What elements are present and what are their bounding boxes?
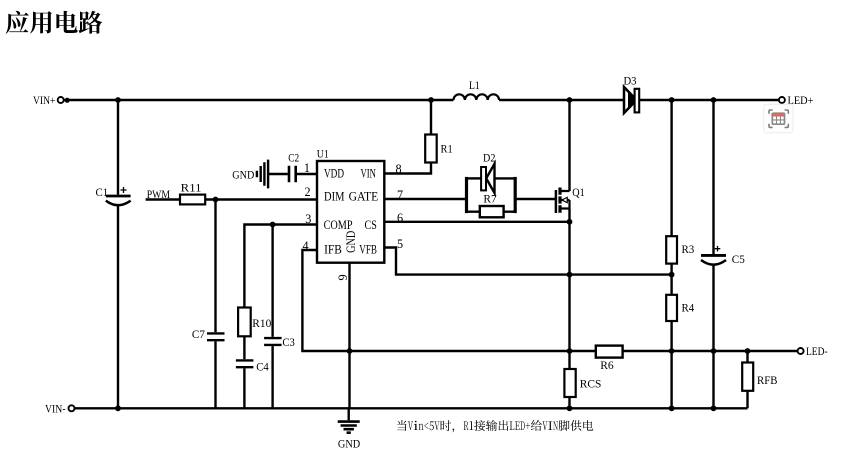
- node junction CS source: [567, 219, 573, 225]
- wire COMP pin 3 net: [244, 225, 317, 308]
- svg-text:RCS: RCS: [580, 376, 602, 390]
- resistor R3: [666, 236, 694, 263]
- overlay extension icon: [764, 104, 793, 133]
- svg-text:1: 1: [304, 161, 310, 175]
- node junction RCS rail: [567, 405, 573, 411]
- node junction Q1 drain top: [567, 97, 573, 103]
- node junction C1 top: [115, 97, 121, 103]
- capacitor C7: [192, 327, 225, 341]
- wire CS pin 6: [384, 221, 569, 223]
- svg-text:VIN: VIN: [361, 167, 377, 181]
- node junction C3 top: [270, 222, 276, 228]
- wire GND pin 9: [348, 263, 350, 409]
- svg-text:VIN+: VIN+: [33, 93, 56, 107]
- transistor Q1: [556, 185, 585, 213]
- wire R3 R4 branch: [670, 100, 672, 408]
- wire VFB pin 5: [384, 248, 671, 275]
- wire C3 branch upper: [271, 225, 273, 337]
- wire bottom rail: [75, 407, 748, 409]
- capacitor C2: [288, 151, 299, 183]
- svg-text:R10: R10: [252, 316, 271, 330]
- svg-text:5: 5: [397, 237, 403, 251]
- wire D2 right stub: [495, 177, 516, 179]
- terminal LED+: [779, 93, 814, 107]
- svg-text:9: 9: [336, 274, 350, 280]
- capacitor C5: [701, 246, 745, 266]
- title 应用电路: [6, 11, 103, 34]
- wire top rail VIN+ to L1: [64, 99, 454, 101]
- svg-text:COMP: COMP: [324, 218, 353, 232]
- wire C5 branch upper: [712, 100, 714, 254]
- wire C4 to rail: [243, 368, 245, 408]
- resistor R1: [425, 135, 453, 163]
- wire top rail D3 to LED+: [639, 99, 779, 101]
- node junction R4 rail: [669, 405, 675, 411]
- resistor R4: [666, 295, 694, 321]
- svg-text:R3: R3: [682, 242, 695, 256]
- node junction C5 bottom: [711, 348, 717, 354]
- wire top rail L1 to D3: [499, 99, 624, 101]
- svg-text:L1: L1: [469, 78, 480, 92]
- svg-text:R7: R7: [483, 192, 496, 206]
- resistor R10: [238, 308, 271, 337]
- op IC U1 body: [317, 146, 385, 262]
- wire PWM input: [146, 198, 180, 200]
- ground symbol left (C2): [232, 160, 268, 189]
- svg-text:VIN-: VIN-: [45, 401, 66, 415]
- resistor R6: [596, 346, 623, 372]
- note text bottom: [397, 420, 593, 432]
- diode D3: [624, 74, 640, 114]
- ground symbol bottom: [338, 408, 361, 450]
- node snubber left bar: [465, 177, 468, 213]
- resistor R11: [180, 180, 205, 204]
- wire C3 branch lower: [271, 346, 273, 408]
- wire C1 branch lower: [117, 205, 119, 408]
- diode D2: [481, 151, 495, 193]
- node junction R1 top: [428, 97, 434, 103]
- node junction RFB top: [745, 348, 751, 354]
- svg-text:C7: C7: [192, 327, 205, 341]
- svg-text:VDD: VDD: [324, 167, 344, 181]
- wire ground to C2: [268, 173, 288, 175]
- wire snubber to Q1 gate: [515, 198, 555, 200]
- svg-text:C5: C5: [732, 252, 745, 266]
- wire R10 to C4: [243, 336, 245, 359]
- svg-text:VFB: VFB: [359, 242, 377, 256]
- wire RCS bottom: [568, 397, 570, 408]
- wire R11 to DIM pin 2: [205, 198, 317, 200]
- terminal LED-: [798, 344, 828, 358]
- node junction source line LED-: [567, 348, 573, 354]
- capacitor C4: [236, 360, 269, 374]
- node junction gnd stem: [347, 348, 353, 354]
- node junction R4 bottom: [669, 348, 675, 354]
- svg-text:R6: R6: [600, 358, 614, 372]
- svg-text:Q1: Q1: [572, 185, 585, 199]
- wire Q1 drain to rail: [568, 100, 570, 191]
- wire C5 branch lower: [712, 265, 714, 409]
- node junction C5 top: [711, 97, 717, 103]
- wire C2 to VDD pin 1: [297, 173, 317, 175]
- svg-text:C2: C2: [288, 151, 299, 165]
- svg-text:R1: R1: [441, 142, 453, 156]
- svg-text:LED-: LED-: [806, 344, 828, 358]
- svg-text:R11: R11: [181, 180, 202, 194]
- svg-text:C3: C3: [282, 335, 295, 349]
- svg-text:CS: CS: [365, 218, 377, 232]
- wire Q1 source down: [568, 209, 570, 370]
- wire IFB pin 4 net: [302, 250, 797, 351]
- resistor RCS: [564, 369, 601, 397]
- capacitor C3: [264, 335, 295, 349]
- terminal VIN-: [45, 401, 75, 415]
- svg-text:GATE: GATE: [349, 189, 379, 203]
- svg-text:D2: D2: [483, 151, 495, 165]
- svg-text:U1: U1: [317, 146, 329, 160]
- svg-text:DIM: DIM: [324, 189, 345, 203]
- node junction C1 bottom: [115, 405, 121, 411]
- svg-text:RFB: RFB: [757, 373, 778, 387]
- capacitor C1: [96, 185, 131, 205]
- resistor R7: [467, 192, 516, 218]
- wire C1 branch upper: [117, 100, 119, 195]
- resistor RFB: [742, 351, 777, 408]
- svg-text:IFB: IFB: [324, 242, 342, 256]
- wire C7 branch upper: [214, 200, 216, 333]
- inductor L1: [454, 78, 500, 100]
- node junction C5 rail: [711, 405, 717, 411]
- svg-text:C4: C4: [256, 360, 269, 374]
- svg-text:D3: D3: [624, 74, 637, 88]
- node junction R3 R4: [669, 272, 675, 278]
- wire C7 branch lower: [214, 341, 216, 408]
- svg-text:2: 2: [305, 185, 311, 199]
- svg-text:R4: R4: [682, 300, 695, 314]
- node snubber right bar: [514, 177, 517, 213]
- wire GATE pin 7 to snubber: [384, 198, 466, 200]
- node junction VFB source line: [567, 272, 573, 278]
- wire VIN pin 8 to R1: [384, 163, 431, 174]
- node junction R3 top: [669, 97, 675, 103]
- terminal VIN+: [33, 93, 70, 107]
- svg-text:GND: GND: [232, 167, 254, 181]
- svg-text:GND: GND: [344, 231, 358, 253]
- wire R1 top to rail: [430, 100, 432, 135]
- svg-text:GND: GND: [338, 436, 361, 450]
- wire D2 left stub: [466, 177, 481, 179]
- node junction C7 top: [213, 197, 219, 203]
- svg-text:3: 3: [305, 212, 311, 226]
